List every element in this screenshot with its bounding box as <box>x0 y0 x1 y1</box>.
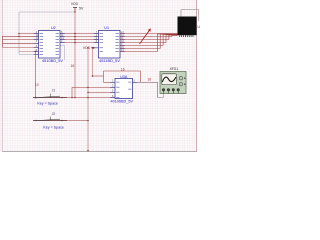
node junction 19-33.5 <box>18 33 20 35</box>
wire vertical x103.5 <box>103 71 105 82</box>
svg-text:J2: J2 <box>52 112 56 116</box>
svg-text:16: 16 <box>147 78 151 82</box>
wire U3A pin2 <box>72 86 115 88</box>
svg-text:10: 10 <box>35 83 39 87</box>
wire y76 branch <box>93 75 104 77</box>
svg-text:4511BD_5V: 4511BD_5V <box>99 59 121 63</box>
svg-text:U3A: U3A <box>120 75 128 79</box>
wire U2 pin3 <box>3 38 39 40</box>
wire gray to FG terminal <box>157 92 164 98</box>
wire U3A pin1 <box>104 81 116 83</box>
svg-text:J1: J1 <box>52 88 56 92</box>
U3A pin numbers <box>112 80 135 98</box>
svg-text:5V: 5V <box>79 7 84 11</box>
wire U2 pin1 <box>19 33 39 35</box>
wire vertical x139 <box>140 71 142 82</box>
node junction 92.5-47.8 <box>92 47 94 49</box>
svg-text:40106BD_5V: 40106BD_5V <box>111 99 134 103</box>
node crossing dots on VDD drop <box>74 33 76 44</box>
seven segment display U4 <box>178 17 202 38</box>
wire gray rail horizontal top <box>19 11 75 13</box>
switch J2 <box>33 112 88 130</box>
U1 pin numbers <box>96 31 125 52</box>
U1 pin stubs <box>94 34 125 52</box>
sheet border right <box>196 0 198 152</box>
wire VDD drop to switch net <box>74 12 76 98</box>
node junction 88-87.4 <box>87 87 89 89</box>
node junction 75-97.5 <box>74 97 76 99</box>
node junction 35.5-97.5 <box>35 97 37 99</box>
wire switch1 net to U3A pin4 <box>33 97 115 99</box>
svg-text:16: 16 <box>71 64 75 68</box>
wire switch J1 feed vertical <box>35 51 37 97</box>
wire U2 pin4 <box>3 42 39 44</box>
svg-text:XFG1: XFG1 <box>170 67 178 71</box>
wire U2 pin7 <box>19 50 39 52</box>
sheet border left <box>1 0 3 152</box>
U2 pin stubs <box>34 34 65 55</box>
IC U1 4511 decoder <box>99 26 121 63</box>
wire U2 pin6 <box>3 46 39 48</box>
U2 pin name dashes <box>40 33 59 55</box>
svg-text:Key = Space: Key = Space <box>43 126 64 130</box>
function generator XFG1 <box>160 67 186 94</box>
wire U2 unused pin gray stub <box>60 46 65 61</box>
node junction 35.5-51.4 <box>35 51 37 53</box>
U2 pin numbers <box>36 31 65 52</box>
svg-text:U2: U2 <box>51 26 56 30</box>
wire U3A output to FG: y82.3 <box>133 81 158 83</box>
svg-text:VDD: VDD <box>83 46 91 50</box>
node junction 72-97.5 <box>71 97 73 99</box>
wire long vertical x88 <box>87 48 89 152</box>
wire VDD stem <box>74 8 76 12</box>
svg-text:U4: U4 <box>198 25 201 29</box>
node junction 88-97.5 <box>87 97 89 99</box>
IC U3A gate <box>111 75 134 103</box>
node junction 19-36.3 <box>18 36 20 38</box>
IC U2 4510 counter <box>39 26 64 63</box>
svg-text:Key = Space: Key = Space <box>37 101 58 105</box>
node junction 88-47.8 <box>87 47 89 49</box>
wire U2-U1 data Q2 <box>60 39 99 41</box>
wire display top loop <box>181 10 199 21</box>
wire VDD arrow to U1 <box>83 46 99 50</box>
U3A pin name dashes <box>116 82 131 98</box>
svg-text:4510BD_5V: 4510BD_5V <box>42 59 64 63</box>
wire U1 to U3A clk: horizontal y71 <box>104 70 141 72</box>
switch J1 <box>33 88 67 105</box>
wire U3A pin3 <box>88 91 115 93</box>
node junction 92.5-76 <box>92 75 94 77</box>
wire U2-U1 data Q1 <box>60 36 99 38</box>
wires U1 outputs to display (nested corners) <box>120 34 178 52</box>
wire left bus vertical <box>2 36 4 47</box>
wire vertical x92.5 <box>92 48 94 76</box>
node VDD junction <box>74 11 76 13</box>
wire gray rail vertical <box>18 12 20 54</box>
wire gray rail to U2 pin8 <box>19 53 39 55</box>
U1 pin name dashes <box>100 33 119 52</box>
wire U2 pin2 <box>3 35 39 37</box>
U3A pin stubs <box>110 82 137 97</box>
svg-text:VDD: VDD <box>71 2 79 6</box>
node junction 88-92.4 <box>87 92 89 94</box>
wire diagonal arrow <box>140 28 151 44</box>
wire vertical x72 <box>71 87 73 97</box>
wire U2-U1 data Q3 <box>60 42 99 44</box>
power VDD symbol <box>71 2 84 11</box>
wire U2-U1 data Q0 <box>60 33 99 35</box>
svg-text:U1: U1 <box>104 26 109 30</box>
sheet border bottom <box>2 151 197 153</box>
wire vertical x157 <box>157 82 159 97</box>
